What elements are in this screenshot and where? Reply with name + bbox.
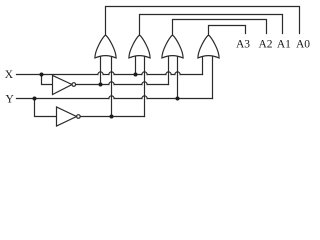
hop: Y bus over gate1 right stub [109,96,114,99]
inverter U1 bubble [72,83,76,87]
wire gate G4 right input stub [212,56,214,98]
or-gate G2 [129,35,150,58]
wire gate G3 left input stub [168,56,170,84]
hop: X' bus over gate1 right stub [109,82,114,85]
svg-text:Y: Y [5,93,14,105]
svg-text:A3: A3 [236,39,250,51]
wire gate G1 right input stub [111,56,113,116]
svg-text:A2: A2 [258,39,272,51]
wire gate G2 right input stub [144,56,146,116]
svg-text:X: X [5,69,14,81]
wire Y input bus [17,98,213,100]
hop: X' bus over gate2 right stub [142,82,147,85]
node Y to gate G3 right input [176,97,180,101]
node X' to gate G1 left input [99,83,103,87]
inverter U2 triangle [57,107,77,126]
node X branch to inverter U1 [40,73,44,77]
hop: X bus over gate3 left stub [166,72,171,75]
wire gate G4 left input stub [202,56,204,74]
wire gate G4 output rail to A3 [209,26,246,36]
node X to gate G2 left input [134,73,138,77]
svg-text:A1: A1 [277,39,291,51]
hop: Y bus over gate2 right stub [142,96,147,99]
hop: X bus over gate1 right stub [109,72,114,75]
node Y' to gate G1 right input [110,115,114,119]
inverter U1 triangle [53,76,73,95]
hop: X bus over gate3 right stub [175,72,180,75]
wire X' bus (inverter U1 output) [76,84,169,86]
svg-text:A0: A0 [296,39,310,51]
wire branch Y node to inverter U2 input [35,99,57,117]
wire gate G1 output rail to A0 [106,7,300,36]
wire gate G1 left input stub [100,56,102,84]
wire gate G3 right input stub [177,56,179,98]
or-gate G4 [198,35,219,58]
hop: X bus over gate1 left stub [98,72,103,75]
wire X input bus [17,74,203,76]
wire gate G3 output rail to A2 [173,20,267,36]
wire branch X node to inverter U1 input [42,75,53,85]
wire Y' bus (inverter U2 output) [80,116,144,118]
wire gate G2 output rail to A1 [140,15,283,36]
hop: X bus over gate2 right stub [142,72,147,75]
or-gate G1 [95,35,116,58]
wire gate G2 left input stub [135,56,137,74]
inverter U2 bubble [77,115,81,119]
or-gate G3 [162,35,183,58]
node Y branch to inverter U2 [33,97,37,101]
